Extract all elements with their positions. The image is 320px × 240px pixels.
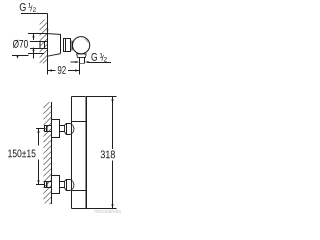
upper union nut — [65, 124, 71, 135]
G1/2 outlet arrows — [71, 61, 76, 63]
dim O70 extension lines — [12, 34, 48, 59]
wall hatching (top view) — [40, 20, 48, 64]
lower union nut — [65, 180, 71, 191]
wall hatching (side view) — [43, 102, 51, 204]
dim 92 dimension line — [48, 70, 80, 72]
knob (top view circle) — [73, 37, 90, 54]
upper union boss — [70, 124, 74, 135]
valve body (top view) — [64, 39, 72, 52]
dim text 318 — [101, 151, 115, 159]
watermark — [94, 209, 121, 213]
escutcheon O70 (top view) — [48, 33, 61, 36]
dim 92 extension line (outlet side) — [79, 63, 81, 74]
label G1/2 (top inlet) — [20, 3, 36, 12]
lower wall fitting — [45, 182, 52, 188]
dim 318 arrows — [111, 97, 113, 101]
lower escutcheon (side view) — [52, 176, 60, 194]
outlet nut under knob — [77, 54, 87, 58]
knob neck — [71, 41, 73, 51]
dim 150+-15 extension lines — [36, 129, 45, 185]
body division lines — [72, 121, 87, 123]
upper escutcheon (side view) — [52, 120, 60, 138]
knob inner arc — [85, 39, 88, 43]
dim O70 arrows — [32, 34, 34, 38]
dim 318 extension lines — [87, 97, 117, 209]
dim text O70 — [13, 40, 28, 48]
lower connection pipe — [60, 182, 66, 188]
inlet supply pipe (top view) — [30, 42, 40, 49]
dim text 92 — [58, 66, 66, 74]
upper wall fitting — [45, 126, 52, 132]
label G1/2 (outlet) — [91, 53, 106, 61]
valve body (side view) — [72, 97, 87, 209]
wall face line (side view) — [51, 102, 53, 204]
dim text 150+-15 — [8, 150, 35, 158]
dim 150+-15 arrows — [37, 129, 39, 133]
inlet fitting in wall (top view) — [40, 42, 48, 49]
leader from G1/2 to wall port — [21, 14, 48, 31]
outlet stub G1/2 — [80, 57, 85, 63]
lower union boss — [70, 180, 74, 191]
upper connection pipe — [60, 126, 66, 132]
wall face line (top view) — [47, 20, 49, 75]
